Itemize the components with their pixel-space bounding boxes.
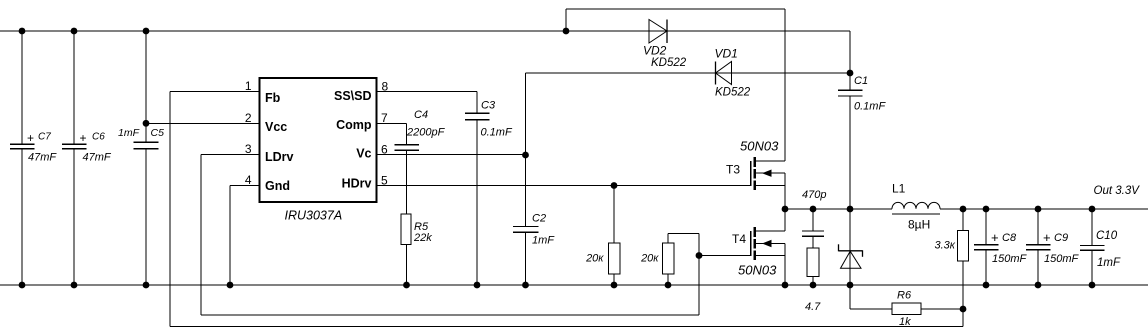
svg-text:+: + (991, 230, 999, 245)
svg-text:T3: T3 (726, 163, 740, 177)
svg-text:22k: 22k (413, 232, 432, 244)
svg-text:Fb: Fb (265, 91, 281, 105)
svg-text:Out 3.3V: Out 3.3V (1094, 185, 1141, 197)
svg-text:2200pF: 2200pF (406, 127, 446, 139)
svg-text:C1: C1 (854, 75, 868, 87)
svg-text:LDrv: LDrv (265, 150, 294, 164)
svg-text:+: + (80, 131, 87, 145)
svg-text:3: 3 (245, 142, 252, 156)
svg-text:Vc: Vc (356, 147, 371, 161)
svg-text:T4: T4 (732, 232, 746, 246)
svg-text:C5: C5 (151, 127, 165, 139)
svg-text:C2: C2 (532, 212, 546, 224)
svg-text:C4: C4 (414, 109, 428, 121)
svg-text:VD1: VD1 (715, 47, 738, 61)
svg-text:8: 8 (382, 80, 389, 94)
svg-text:1mF: 1mF (118, 127, 140, 139)
svg-text:Gnd: Gnd (265, 179, 290, 193)
svg-text:1k: 1k (899, 316, 911, 328)
svg-text:1: 1 (245, 79, 252, 93)
svg-text:+: + (27, 131, 34, 145)
svg-text:50N03: 50N03 (740, 139, 779, 154)
svg-text:VD2: VD2 (643, 43, 667, 57)
svg-text:0.1mF: 0.1mF (854, 101, 886, 113)
svg-text:47mF: 47mF (83, 152, 112, 164)
svg-text:4.7: 4.7 (805, 301, 821, 313)
svg-text:Vcc: Vcc (265, 120, 287, 134)
svg-text:Comp: Comp (336, 118, 372, 132)
svg-text:C7: C7 (38, 132, 51, 143)
svg-text:20к: 20к (585, 253, 604, 265)
svg-text:3.3к: 3.3к (935, 240, 956, 252)
svg-text:C8: C8 (1002, 232, 1017, 244)
svg-text:470p: 470p (802, 189, 826, 201)
svg-text:50N03: 50N03 (738, 263, 777, 278)
svg-text:L1: L1 (892, 182, 906, 196)
svg-text:IRU3037A: IRU3037A (285, 209, 343, 223)
svg-text:1mF: 1mF (1097, 257, 1121, 269)
svg-text:150mF: 150mF (1044, 253, 1080, 265)
svg-text:C3: C3 (481, 99, 496, 111)
svg-text:150mF: 150mF (992, 253, 1028, 265)
svg-text:1mF: 1mF (532, 234, 555, 246)
svg-text:4: 4 (245, 173, 252, 187)
svg-text:C10: C10 (1096, 230, 1118, 242)
svg-text:6: 6 (381, 143, 388, 157)
svg-text:7: 7 (381, 111, 388, 125)
svg-text:8µH: 8µH (908, 218, 930, 232)
svg-text:KD522: KD522 (651, 57, 687, 69)
svg-text:20к: 20к (640, 253, 659, 265)
svg-text:KD522: KD522 (715, 87, 751, 99)
svg-text:2: 2 (245, 111, 252, 125)
svg-text:0.1mF: 0.1mF (481, 127, 513, 139)
svg-text:C9: C9 (1054, 232, 1068, 244)
svg-text:HDrv: HDrv (342, 177, 372, 191)
svg-text:47mF: 47mF (28, 152, 57, 164)
svg-text:5: 5 (381, 174, 388, 188)
svg-text:C6: C6 (92, 132, 105, 143)
svg-text:+: + (1043, 230, 1051, 245)
svg-text:R6: R6 (897, 290, 912, 302)
svg-text:SS\SD: SS\SD (334, 89, 372, 103)
